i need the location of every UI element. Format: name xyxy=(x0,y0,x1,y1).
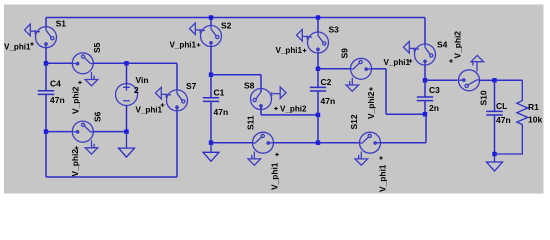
svg-text:S12: S12 xyxy=(349,114,359,129)
svg-text:47n: 47n xyxy=(214,107,229,117)
junction S1 / C4 / S5 xyxy=(44,61,48,65)
wire to S10 left xyxy=(425,79,458,81)
wire up to S7 bottom xyxy=(176,106,178,178)
junction S4 / C3 / S10 xyxy=(423,78,427,82)
wire S8 to C2 bottom xyxy=(261,114,318,116)
wire bottom bus left xyxy=(211,142,253,144)
wire CL top xyxy=(494,80,496,111)
svg-text:S8: S8 xyxy=(244,81,255,91)
switch S10 xyxy=(459,55,484,90)
svg-text:S7: S7 xyxy=(186,81,197,91)
svg-text:S1: S1 xyxy=(56,19,67,29)
wire S3 bottom pin xyxy=(317,53,319,69)
switch S2 xyxy=(190,23,222,47)
junction top bus / S2 xyxy=(209,15,213,19)
wire node A to C4 xyxy=(45,63,47,91)
switch S1 xyxy=(25,24,57,48)
svg-text:S3: S3 xyxy=(329,25,340,35)
svg-text:CL: CL xyxy=(496,101,507,111)
resistor R1 xyxy=(495,80,528,154)
junction bottom bus / C2 column xyxy=(316,141,320,145)
plus marker S7 control xyxy=(161,103,165,107)
svg-text:V_phi2: V_phi2 xyxy=(280,105,307,114)
capacitor CL xyxy=(486,111,502,115)
wire C3 bottom xyxy=(424,101,426,115)
svg-text:V_phi2: V_phi2 xyxy=(453,31,463,59)
wire S2 bottom pin xyxy=(210,46,212,74)
wire S4 bottom pin xyxy=(424,65,426,81)
svg-text:S9: S9 xyxy=(340,48,350,59)
switch S11 xyxy=(248,132,274,165)
wire to S9 left xyxy=(318,68,351,70)
capacitor C1 xyxy=(203,98,219,102)
svg-text:S2: S2 xyxy=(221,21,232,31)
svg-text:V_phi1: V_phi1 xyxy=(136,106,163,115)
switch S3 xyxy=(297,29,329,53)
wire to R1 xyxy=(495,79,523,81)
svg-text:V_phi2: V_phi2 xyxy=(71,86,81,114)
svg-text:S5: S5 xyxy=(92,42,102,53)
junction S2 / C1 / S8 xyxy=(209,73,213,77)
wire S9 right xyxy=(371,68,386,70)
schematic canvas background xyxy=(4,5,544,194)
junction S8 / C2 bottom xyxy=(316,113,320,117)
wire down to S7 xyxy=(176,63,178,90)
ground at output xyxy=(487,154,503,171)
wire S6 to ground node xyxy=(93,131,127,133)
junction C1 / bottom bus / ground xyxy=(209,141,213,145)
wire to S6 left xyxy=(46,131,73,133)
wire top bus xyxy=(46,17,425,19)
junction CL / R1 / ground xyxy=(492,152,496,156)
wire S8 bottom pin xyxy=(260,106,262,115)
junction C3 / S9 / S12 loop xyxy=(423,112,427,116)
wire C2 bottom xyxy=(317,91,319,115)
junction S10 / CL / R1 xyxy=(492,78,496,82)
wire C3 node down xyxy=(425,114,427,143)
svg-text:C2: C2 xyxy=(321,77,332,87)
plus marker S12 control xyxy=(379,156,383,160)
junction Vin- / S6 / ground xyxy=(124,129,128,133)
plus marker S9 control xyxy=(369,87,373,91)
wire C2 node down to bottom bus xyxy=(317,115,319,143)
switch S6 xyxy=(72,121,98,154)
wire Vin top pin xyxy=(126,63,128,83)
wire down from S9 xyxy=(385,69,387,114)
switch S8 xyxy=(251,87,287,110)
switch S4 xyxy=(404,41,436,65)
svg-text:2: 2 xyxy=(134,85,139,95)
svg-text:V_phi1: V_phi1 xyxy=(378,164,388,192)
ground at Vin- xyxy=(119,132,135,158)
wire C1 top xyxy=(210,75,212,98)
wire S1 bottom pin xyxy=(45,47,47,63)
junction C4 column / S6 xyxy=(44,129,48,133)
wire S5 to Vin node xyxy=(93,62,127,64)
svg-text:47n: 47n xyxy=(50,95,65,105)
wire C2 top xyxy=(317,69,319,88)
wire bottom bus right xyxy=(318,142,360,144)
wire C3 top xyxy=(424,80,426,97)
svg-text:V_phi1: V_phi1 xyxy=(384,58,411,67)
junction top bus / S3 xyxy=(316,15,320,19)
ground at C1 xyxy=(203,143,219,162)
capacitor C4 xyxy=(38,91,54,95)
svg-text:V_phi2: V_phi2 xyxy=(70,149,80,177)
svg-text:47n: 47n xyxy=(321,96,336,106)
plus marker S6 control xyxy=(75,146,79,150)
svg-text:R1: R1 xyxy=(528,102,539,112)
svg-text:V_phi1: V_phi1 xyxy=(4,43,31,52)
switch S5 xyxy=(72,53,98,86)
svg-text:S6: S6 xyxy=(92,111,102,122)
svg-text:S11: S11 xyxy=(246,115,256,130)
plus marker S10 control xyxy=(449,59,453,63)
voltage source Vin xyxy=(116,84,138,106)
svg-text:S4: S4 xyxy=(437,40,448,50)
plus marker S2 control xyxy=(197,43,201,47)
svg-text:C4: C4 xyxy=(50,79,61,89)
svg-text:V_phi1: V_phi1 xyxy=(170,41,197,50)
svg-text:2n: 2n xyxy=(429,103,439,113)
svg-text:Vin: Vin xyxy=(136,75,149,85)
wire node to S7 column xyxy=(127,62,178,64)
wire bottom bus mid xyxy=(273,142,318,144)
wire bottom left return xyxy=(46,176,177,178)
wire to S8 top xyxy=(211,74,261,76)
capacitor C2 xyxy=(310,87,326,91)
wire to C3 bottom xyxy=(386,113,425,115)
wire CL bottom xyxy=(494,115,496,154)
switch S9 xyxy=(346,58,372,91)
wire S4 top pin xyxy=(424,18,426,45)
switch S12 xyxy=(355,132,381,165)
switch S7 xyxy=(156,87,188,111)
plus marker S5 control xyxy=(78,81,82,85)
svg-text:V_phi1: V_phi1 xyxy=(276,46,303,55)
plus marker S1 control xyxy=(30,42,34,46)
plus marker S4 control xyxy=(409,59,413,63)
svg-text:S10: S10 xyxy=(479,90,489,105)
wire S10 right xyxy=(479,79,494,81)
wire node A to S5 xyxy=(46,62,73,64)
svg-text:C3: C3 xyxy=(429,85,440,95)
wire S2 top pin xyxy=(210,18,212,27)
junction S5 / Vin / S7 xyxy=(124,61,128,65)
svg-text:V_phi2: V_phi2 xyxy=(366,91,376,119)
wire S8 top pin xyxy=(260,75,262,92)
wire S3 top pin xyxy=(317,18,319,33)
wire to S12 right xyxy=(380,142,426,144)
capacitor C3 xyxy=(417,97,433,101)
svg-text:10k: 10k xyxy=(528,115,542,125)
junction S3 / C2 / S9 xyxy=(316,67,320,71)
plus marker S11 control xyxy=(275,153,279,157)
plus marker S8 control xyxy=(274,107,278,111)
wire Vin bottom pin xyxy=(126,106,128,132)
svg-text:47n: 47n xyxy=(496,115,511,125)
svg-text:C1: C1 xyxy=(214,88,225,98)
wire C4 to bottom xyxy=(45,94,47,177)
wire C1 bottom xyxy=(210,101,212,142)
wire S1 top pin xyxy=(45,18,47,28)
svg-text:V_phi1: V_phi1 xyxy=(270,162,280,190)
plus marker S3 control xyxy=(303,49,307,53)
